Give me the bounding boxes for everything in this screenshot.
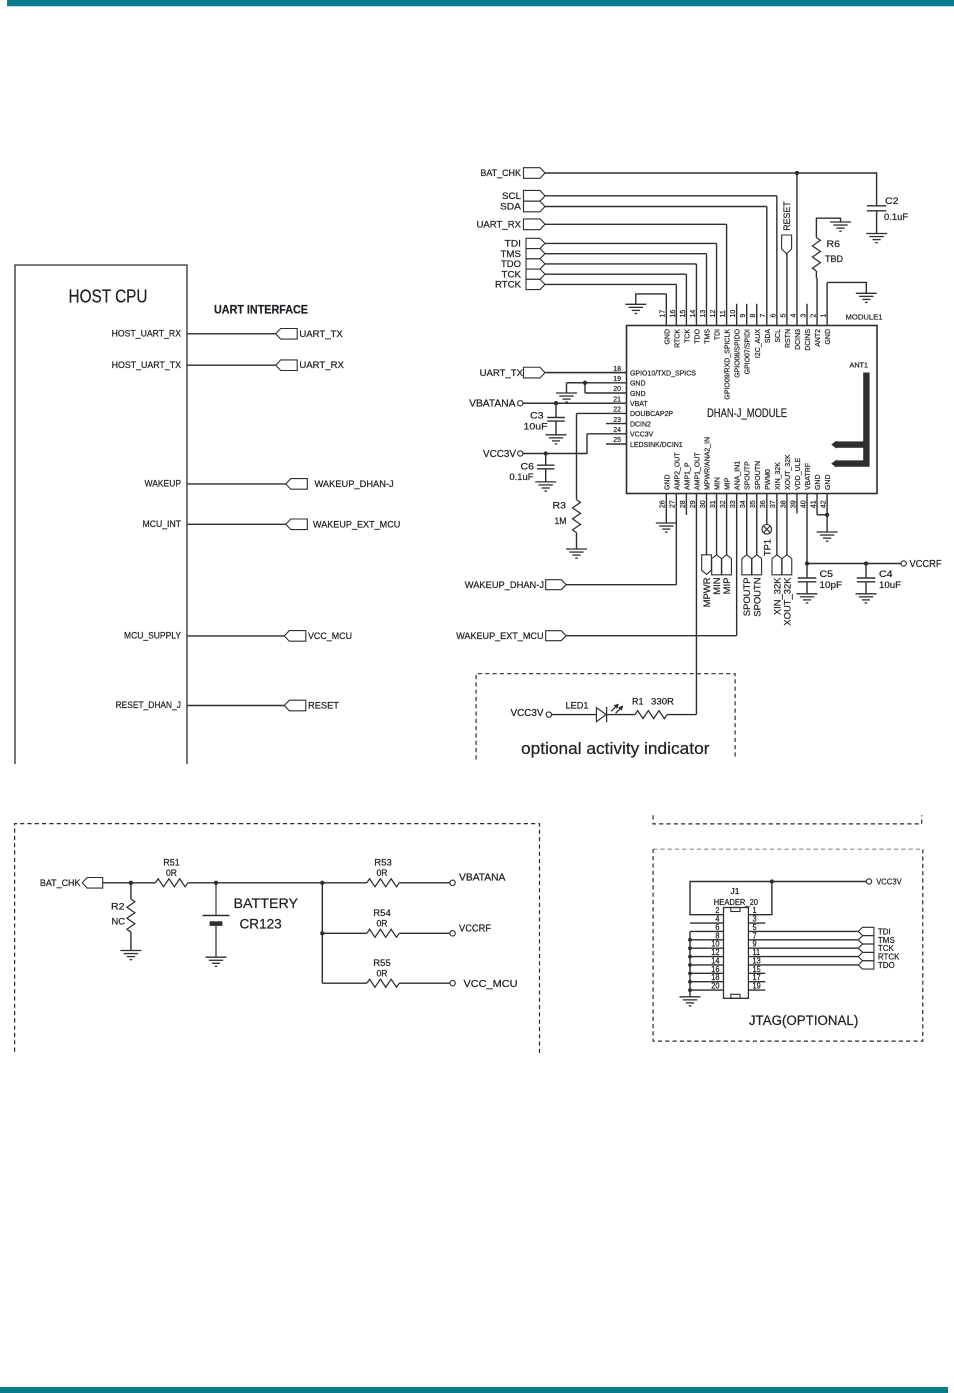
pin number 3	[753, 915, 757, 924]
net label TCK	[502, 269, 522, 280]
svg-text:C4: C4	[879, 569, 893, 580]
svg-text:I2C_AUX: I2C_AUX	[753, 329, 762, 358]
module pin 19 (GND) stub	[567, 382, 627, 384]
caption JTAG(OPTIONAL)	[749, 1013, 858, 1028]
svg-text:C3: C3	[530, 411, 544, 422]
svg-text:MIN: MIN	[713, 477, 722, 490]
wire J1 pin 16	[690, 972, 724, 974]
svg-text:ANA_IN1: ANA_IN1	[733, 461, 742, 490]
wire GND pins to ground	[826, 515, 828, 532]
value 0.1uF	[509, 472, 533, 483]
svg-text:JTAG(OPTIONAL): JTAG(OPTIONAL)	[749, 1013, 858, 1028]
capacitor C2	[867, 206, 886, 211]
svg-text:RTCK: RTCK	[495, 280, 522, 291]
wire pin20 GND up to pin19 wire	[584, 383, 586, 393]
pin number 29	[688, 500, 697, 508]
wire SCL	[545, 195, 777, 197]
module pin 18 (GPIO10/TXD_SPICS) stub	[547, 372, 627, 374]
bottom teal footer bar	[0, 1387, 948, 1393]
module pin 34 (SPOUTP) stub	[746, 494, 748, 555]
svg-text:MIP: MIP	[723, 478, 732, 490]
flag label XIN_32K	[772, 577, 783, 615]
svg-text:VBATANA: VBATANA	[469, 399, 516, 410]
svg-text:SPOUTN: SPOUTN	[753, 461, 762, 490]
svg-text:VBATANA: VBATANA	[459, 873, 506, 884]
label C2	[885, 196, 899, 207]
svg-text:10uF: 10uF	[524, 422, 548, 433]
wire R55 to VCC_MCU	[399, 982, 450, 984]
svg-text:34: 34	[738, 500, 747, 508]
junction R2 tap	[129, 881, 133, 885]
wire VBATANA to VBAT pin21	[523, 402, 627, 404]
svg-text:41: 41	[808, 500, 817, 508]
net label WAKEUP_EXT_MCU	[313, 519, 400, 530]
svg-text:HOST_UART_TX: HOST_UART_TX	[112, 360, 182, 371]
svg-text:10uF: 10uF	[879, 580, 901, 591]
pin name GPIO07/SPIDI	[743, 329, 752, 374]
pin number 5	[753, 923, 758, 932]
module pin 27 (AMP2_OUT) stub	[675, 494, 677, 585]
net label VCC3V	[483, 449, 516, 460]
flag TDI (JTAG)	[858, 927, 874, 935]
pin name VBAT	[630, 399, 648, 408]
resistor R6	[812, 238, 820, 272]
pin number 30	[698, 500, 707, 508]
flag RTCK	[526, 279, 545, 289]
net label VBATANA (battery)	[459, 873, 506, 884]
svg-text:19: 19	[753, 982, 761, 991]
wire R51 to battery and bus	[188, 882, 322, 884]
junction bus row pin 8	[688, 938, 692, 942]
value 0R (R53)	[377, 868, 388, 879]
pin number 5	[778, 314, 787, 318]
svg-text:7: 7	[758, 314, 767, 318]
net label TDO (JTAG)	[878, 960, 895, 970]
svg-text:6: 6	[768, 314, 777, 318]
wire WAKEUP_DHAN-J to pin27	[566, 584, 676, 586]
terminal VCCRF	[901, 561, 906, 566]
module pin 3 (DCINS) stub	[806, 304, 808, 326]
svg-text:R6: R6	[827, 239, 841, 250]
ground below battery	[206, 957, 227, 966]
junction pins 19/20 GND	[583, 381, 587, 385]
wire J1 pin 18	[690, 981, 724, 983]
wire pin40 VBATRF to VCCRF rail	[807, 563, 901, 565]
pin number 2	[808, 314, 817, 318]
resistor R2	[127, 899, 135, 932]
svg-text:22: 22	[613, 405, 621, 414]
module pin 21 (VBAT) stub	[523, 402, 626, 404]
svg-text:10pF: 10pF	[820, 580, 843, 591]
net label TCK (JTAG)	[878, 943, 894, 953]
pin name GND	[662, 474, 671, 490]
dashed box battery section	[15, 824, 540, 1055]
pin number 27	[668, 500, 677, 508]
pin number 39	[788, 500, 797, 508]
label TP1 rotated	[762, 539, 773, 556]
wire WAKEUP_EXT_MCU to pin33	[566, 635, 736, 637]
ground at module pin17	[625, 304, 646, 313]
pin number 13	[698, 310, 707, 318]
module pin 7 (SDA) stub	[766, 207, 768, 326]
flag TMS (JTAG)	[858, 936, 874, 944]
flag TMS	[526, 249, 545, 259]
svg-text:VCC3V: VCC3V	[483, 449, 516, 460]
resistor R1	[635, 711, 667, 719]
wire TDO	[545, 263, 696, 265]
svg-text:VCC3V: VCC3V	[876, 877, 902, 887]
pin number 36	[758, 500, 767, 508]
flag label MPWR	[702, 577, 713, 607]
svg-text:VCCRF: VCCRF	[459, 923, 491, 934]
HOST CPU block U-outline	[15, 265, 187, 764]
wire R1 to pin29 AMP1_OUT	[667, 714, 696, 716]
pin number 25	[613, 435, 621, 444]
HOST CPU pin MCU_INT	[143, 519, 182, 530]
wire J1 pin 7	[748, 939, 858, 941]
ground at pins 19/20	[556, 393, 577, 402]
svg-text:R2: R2	[111, 902, 125, 913]
pin number 37	[768, 500, 777, 508]
wire J1 pin 15	[748, 972, 765, 974]
svg-text:LED1: LED1	[566, 700, 589, 711]
wire R3 to ground	[576, 533, 578, 549]
pin number 38	[778, 500, 787, 508]
wire pin22 DOUBCAP2P down to R3	[576, 413, 578, 499]
antenna ANT1 inverted-F symbol	[831, 373, 869, 468]
wire bus to R55	[322, 982, 367, 984]
wire R2 to ground	[130, 932, 132, 951]
wire ground stem pins19/20	[566, 383, 568, 393]
svg-text:XIN_32K: XIN_32K	[773, 462, 782, 490]
flag MIP	[722, 555, 732, 575]
svg-text:ANT2: ANT2	[813, 329, 822, 347]
svg-text:UART_RX: UART_RX	[299, 360, 344, 371]
pin number 11	[753, 948, 761, 957]
svg-text:39: 39	[788, 500, 797, 508]
wire bus to R54	[322, 932, 367, 934]
pin number 33	[728, 500, 737, 508]
flag WAKEUP_EXT_MCU (module side)	[456, 631, 543, 642]
svg-text:SCL: SCL	[502, 191, 521, 202]
net label UART_TX	[480, 368, 524, 379]
svg-text:37: 37	[768, 500, 777, 508]
pin name AMP1_OUT	[692, 452, 701, 490]
pin name GND	[630, 379, 646, 388]
resistor R3	[573, 500, 581, 533]
junction bus top	[320, 881, 324, 885]
svg-text:VCC_MCU: VCC_MCU	[308, 631, 352, 642]
flag RESET	[284, 700, 306, 711]
svg-text:AMP1_P: AMP1_P	[682, 463, 691, 491]
pin number 20	[613, 384, 621, 393]
wire pin17 GND to ground	[636, 294, 667, 304]
svg-text:TDI: TDI	[713, 329, 722, 340]
terminal VCC_MCU (battery)	[450, 981, 455, 986]
flag SPOUTP	[742, 555, 752, 575]
module pin 36 (PWM0) stub	[766, 494, 768, 525]
pin name MPWR/ANA2_IN	[703, 437, 712, 490]
wire UART_RX	[187, 364, 276, 366]
svg-text:TBD: TBD	[825, 254, 843, 265]
junction C4 tap	[864, 561, 868, 565]
terminal VBATANA	[518, 401, 523, 406]
pin name AMP1_P	[682, 463, 691, 491]
ground near R6	[830, 222, 851, 231]
svg-text:40: 40	[798, 500, 807, 508]
svg-text:0R: 0R	[377, 918, 388, 929]
svg-text:23: 23	[613, 415, 621, 424]
refdes MODULE1	[846, 313, 883, 322]
pin number 11	[718, 310, 727, 317]
wire UART_TX	[187, 333, 276, 335]
flag BAT_CHK (battery)	[82, 878, 103, 889]
pin number 14	[688, 310, 697, 318]
capacitor C4	[865, 564, 867, 578]
net label UART_RX	[299, 360, 344, 371]
label R51	[163, 858, 180, 869]
connector J1 header body	[724, 908, 749, 999]
wire R54 to VCCRF	[399, 932, 450, 934]
pin number 20	[711, 982, 720, 991]
pin name XOUT_32K	[783, 454, 792, 490]
pin number 19	[613, 374, 621, 383]
svg-text:31: 31	[708, 500, 717, 508]
svg-text:R3: R3	[553, 501, 567, 512]
pin name XIN_32K	[773, 462, 782, 490]
HOST CPU title	[69, 287, 148, 307]
capacitor C6	[537, 465, 555, 469]
module pin 40 (VBATRF) stub	[806, 494, 808, 564]
svg-text:MODULE1: MODULE1	[846, 313, 883, 322]
pin name GND	[813, 474, 822, 490]
dashed box JTAG section	[653, 849, 923, 1041]
module pin 14 (TDO) stub	[695, 264, 697, 326]
wire C3 to ground	[555, 421, 557, 435]
net label RESET	[308, 701, 339, 712]
pin name GPIO09/RXD_SPICLK	[723, 329, 732, 400]
svg-text:0.1uF: 0.1uF	[884, 212, 908, 223]
net label SDA	[500, 202, 522, 213]
svg-text:4: 4	[788, 314, 797, 318]
wire VCC3V to LED1	[552, 714, 597, 716]
svg-text:25: 25	[613, 435, 621, 444]
wire VCC3V rail to J1 pin2	[690, 882, 866, 915]
pin name RSTN	[783, 329, 792, 348]
pin number 8	[715, 931, 719, 940]
wire J1 pin 13	[748, 964, 858, 966]
module pin 13 (TMS) stub	[706, 254, 708, 326]
module pin 35 (SPOUTN) stub	[756, 494, 758, 555]
pin number 40	[798, 500, 807, 508]
junction bus row pin 14	[688, 963, 692, 967]
ground below C2	[866, 234, 887, 243]
svg-text:GND: GND	[662, 329, 671, 345]
svg-text:GND: GND	[813, 474, 822, 490]
net label VCC3V (JTAG)	[876, 877, 902, 887]
junction bus row pin 16	[688, 971, 692, 975]
svg-text:5: 5	[778, 314, 787, 318]
flag label MIN	[712, 577, 723, 594]
net label BAT_CHK (battery)	[40, 878, 81, 889]
svg-text:C2: C2	[885, 196, 899, 207]
pin name VBATRF	[803, 463, 812, 490]
svg-text:HOST_UART_RX: HOST_UART_RX	[112, 328, 182, 339]
svg-text:17: 17	[658, 310, 667, 318]
svg-text:32: 32	[718, 500, 727, 508]
pin number 13	[753, 956, 761, 965]
pin number 7	[753, 931, 757, 940]
pin name DCIN2	[630, 419, 651, 428]
svg-text:RESET: RESET	[782, 201, 793, 231]
net label VCC_MCU (battery)	[464, 979, 518, 990]
wire R6 bottom to pin2 ANT2	[815, 271, 817, 278]
module name DHAN-J_MODULE	[707, 406, 787, 420]
wire J1 pin 3	[748, 922, 765, 924]
svg-text:GPIO10/TXD_SPICS: GPIO10/TXD_SPICS	[630, 368, 696, 377]
wire R53 to VBATANA	[399, 882, 450, 884]
pin number 14	[711, 956, 720, 965]
svg-text:TDO: TDO	[692, 329, 701, 344]
module pin 5 (RSTN) stub	[786, 253, 788, 325]
wire VCC3V to pin24	[523, 434, 587, 454]
svg-text:optional activity indicator: optional activity indicator	[521, 739, 710, 758]
value 10uF	[524, 422, 548, 433]
ground at pin26 GND	[656, 523, 677, 532]
flag label MIP	[722, 578, 733, 595]
wire C5 to ground	[806, 582, 808, 594]
svg-text:RESET_DHAN_J: RESET_DHAN_J	[116, 700, 182, 711]
svg-text:VCC3V: VCC3V	[511, 708, 544, 719]
svg-text:DOUBCAP2P: DOUBCAP2P	[630, 409, 673, 418]
ground below C5	[797, 594, 818, 603]
dashed box optional activity indicator	[476, 674, 735, 760]
ground below C6	[535, 482, 556, 491]
wire TDI	[545, 242, 717, 244]
pin number 41	[808, 500, 817, 508]
svg-text:GND: GND	[662, 474, 671, 490]
label R54	[373, 908, 391, 919]
net label VCC3V (LED)	[511, 708, 544, 719]
pin name LEDSINK/DCIN1	[630, 440, 683, 449]
pin number 21	[613, 394, 621, 403]
module pin 20 (GND) stub	[585, 392, 627, 394]
pin name VDD_ULE	[793, 458, 802, 490]
pin name SPOUTP	[743, 461, 752, 490]
flag UART_RX	[524, 219, 546, 230]
wire C6 to ground	[545, 469, 547, 482]
ground below C3	[546, 435, 567, 444]
pin number 1	[753, 906, 757, 915]
ground at module pin1	[856, 293, 877, 302]
svg-text:42: 42	[819, 500, 828, 508]
net label RTCK	[495, 280, 522, 291]
module pin 11 (GPIO09/RXD_SPICLK) stub	[726, 224, 728, 325]
module pin 16 (RTCK) stub	[675, 284, 677, 325]
pin number 18	[711, 973, 719, 982]
capacitor C5	[806, 564, 808, 578]
svg-text:20: 20	[711, 982, 720, 991]
flag MPWR	[702, 555, 712, 575]
flag WAKEUP_EXT_MCU	[286, 519, 308, 530]
svg-text:BATTERY: BATTERY	[234, 895, 299, 911]
wire J1 pin 14	[690, 964, 724, 966]
flag VCC_MCU	[284, 631, 306, 642]
value 0R (R54)	[377, 918, 388, 929]
pin name DCIN3	[793, 329, 802, 350]
flag UART_TX	[276, 329, 298, 340]
svg-text:SCL: SCL	[773, 329, 782, 343]
flag RTCK (JTAG)	[858, 952, 874, 960]
svg-text:24: 24	[613, 425, 621, 434]
HOST CPU pin HOST_UART_RX	[112, 328, 182, 339]
svg-text:XOUT_32K: XOUT_32K	[783, 454, 792, 490]
pin number 12	[711, 948, 719, 957]
svg-text:TMS: TMS	[703, 329, 712, 344]
pin number 9	[753, 940, 757, 949]
wire WAKEUP_EXT_MCU	[187, 523, 286, 525]
junction C5 tap	[805, 561, 809, 565]
module pin 42 (GND) stub	[826, 494, 828, 515]
label C6	[521, 462, 535, 473]
svg-text:UART_TX: UART_TX	[480, 368, 524, 379]
svg-text:VBATRF: VBATRF	[803, 463, 812, 490]
module pin 25 (LEDSINK/DCIN1) stub	[606, 443, 627, 445]
svg-text:2: 2	[808, 314, 817, 318]
svg-text:MIP: MIP	[722, 578, 733, 595]
wire J1 pin 20	[690, 989, 724, 991]
module pin 26 (GND) stub	[665, 494, 667, 524]
module pin 32 (MIP) stub	[726, 494, 728, 555]
pin name DCINS	[803, 329, 812, 351]
pin number 42	[819, 500, 828, 508]
wire J1 pin 5	[748, 930, 858, 932]
ground below J1 bus	[680, 997, 701, 1006]
module pin 1 (GND) stub	[826, 282, 828, 325]
svg-text:0.1uF: 0.1uF	[509, 472, 533, 483]
svg-text:10: 10	[728, 310, 737, 318]
label R1	[632, 696, 644, 707]
svg-text:GND: GND	[630, 389, 646, 398]
pin number 26	[658, 500, 667, 508]
junction BAT_CHK/DCIN3	[795, 171, 799, 175]
junction C6 tap	[544, 451, 548, 455]
pin name TDI	[713, 329, 722, 340]
pin name MIN	[713, 477, 722, 490]
J1 ground bus	[689, 931, 691, 996]
svg-text:TP1: TP1	[762, 539, 773, 556]
svg-text:VCC_MCU: VCC_MCU	[464, 979, 518, 990]
svg-text:GPIO09/RXD_SPICLK: GPIO09/RXD_SPICLK	[723, 329, 732, 400]
svg-text:GND: GND	[630, 379, 646, 388]
wire TMS	[545, 253, 707, 255]
svg-text:NC: NC	[112, 917, 126, 928]
ground below R3	[566, 549, 587, 558]
svg-text:RESET: RESET	[308, 701, 339, 712]
svg-text:ANT1: ANT1	[850, 361, 869, 370]
svg-text:XOUT_32K: XOUT_32K	[782, 577, 793, 626]
svg-text:DCIN2: DCIN2	[630, 419, 651, 428]
svg-text:0R: 0R	[377, 868, 388, 879]
label R6	[827, 239, 841, 250]
flag UART_RX	[276, 360, 298, 371]
wire BAT_CHK to DCIN3 and C2	[545, 173, 877, 206]
pin name GND	[823, 329, 832, 345]
net label VCCRF (battery)	[459, 923, 491, 934]
wire J1 pin 17	[748, 981, 765, 983]
net label TDI	[505, 239, 522, 250]
wire J1 pin 4	[690, 922, 724, 924]
